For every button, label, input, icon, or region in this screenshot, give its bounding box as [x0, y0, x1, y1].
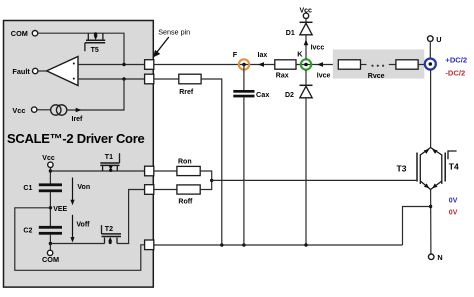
pin Ron (pinR1) [145, 166, 154, 176]
wire T1 rail to pin [50, 170, 144, 172]
svg-text:Voff: Voff [76, 221, 90, 228]
svg-text:Rref: Rref [179, 89, 194, 96]
capacitor Cax [243, 65, 245, 91]
svg-text:U: U [436, 35, 441, 44]
node VEE [49, 206, 52, 209]
junction [210, 179, 213, 182]
node N terminal [428, 254, 434, 260]
current source Iref [37, 109, 51, 111]
wire U down to node [429, 41, 431, 58]
wire D2 down to bottom rail [305, 98, 307, 245]
pin sense (pin1) [145, 60, 154, 70]
wire T2 drain up to Roff pin [117, 190, 145, 244]
node U terminal [428, 36, 434, 42]
wire op-amp top input to sense pin [78, 64, 145, 66]
wire gate rail to T3 [212, 179, 417, 181]
SCALE-2 driver core box [4, 21, 154, 288]
wire COM to T5 and down to op-amp input [38, 33, 124, 64]
resistor Rvce (left) [361, 64, 367, 66]
node COM (bottom terminal) [47, 250, 52, 255]
transistor T1 [100, 153, 119, 171]
svg-text:Ron: Ron [178, 159, 192, 166]
pin2 [145, 74, 154, 84]
transistor T5 [85, 33, 105, 51]
node F [239, 59, 249, 69]
junction [304, 243, 307, 246]
svg-text:Vcc: Vcc [42, 155, 55, 162]
node K [301, 59, 311, 69]
svg-text:Cax: Cax [256, 90, 269, 99]
svg-text:SCALE™-2 Driver Core: SCALE™-2 Driver Core [7, 131, 144, 146]
arrow Voff [72, 215, 74, 240]
arrow Iax [258, 62, 264, 67]
svg-text:Ivce: Ivce [317, 73, 331, 80]
Rvce shaded band [333, 49, 425, 78]
pin Roff (pinR2) [145, 185, 154, 195]
diode D2 [305, 70, 307, 86]
svg-text:COM: COM [42, 255, 59, 264]
svg-text:COM: COM [11, 29, 28, 38]
svg-text:C1: C1 [23, 185, 32, 192]
wire Iref arrow up to pin2 wire [67, 79, 124, 110]
svg-text:-DC/2: -DC/2 [445, 68, 465, 77]
wire D1 to K with Ivcc arrow [305, 35, 307, 60]
wire Vcc down to C1 [49, 168, 51, 184]
wire junction to bottom rail [403, 207, 431, 246]
resistor Rref [154, 78, 179, 80]
capacitor C2 [39, 226, 62, 229]
svg-text:Roff: Roff [178, 198, 193, 205]
arrow Von [72, 178, 74, 203]
junction [429, 205, 432, 208]
svg-text:T4: T4 [449, 162, 459, 172]
node U' (blue) [425, 59, 436, 70]
svg-text:D2: D2 [285, 92, 294, 99]
junction [49, 242, 52, 245]
svg-text:T2: T2 [105, 226, 113, 233]
pin VEE (pin3) [145, 240, 154, 250]
svg-text:C2: C2 [23, 228, 32, 235]
capacitor C1 [39, 183, 62, 186]
wire Rref down to bottom rail [201, 79, 222, 245]
junction [122, 63, 125, 66]
svg-text:Fault: Fault [12, 67, 30, 76]
svg-text:Von: Von [77, 184, 90, 191]
resistor Rax [275, 60, 296, 69]
junction [220, 243, 223, 246]
wire VEE loop to pin3 [15, 208, 145, 270]
svg-text:Ivcc: Ivcc [311, 44, 325, 51]
svg-text:K: K [297, 50, 303, 59]
svg-text:T3: T3 [397, 164, 407, 174]
junction [49, 169, 52, 172]
op-amp U1 [38, 70, 47, 72]
wire T3 bottom to N [430, 190, 432, 254]
svg-text:Iax: Iax [258, 52, 268, 59]
svg-text:F: F [233, 50, 238, 59]
svg-text:Rvce: Rvce [368, 73, 385, 80]
diode D1 [300, 21, 313, 23]
svg-text:Sense pin: Sense pin [158, 27, 190, 36]
wire pin1 to F to K [154, 64, 338, 66]
svg-text:+DC/2: +DC/2 [445, 55, 467, 64]
arrow to sense pin [157, 37, 169, 53]
transistor T2 [102, 225, 122, 243]
wire Vcc to D1 [305, 19, 307, 23]
svg-text:0V: 0V [449, 198, 458, 205]
dots [371, 65, 373, 67]
svg-text:Iref: Iref [72, 116, 84, 123]
svg-text:Vcc: Vcc [12, 106, 25, 115]
wire bottom rail [154, 244, 403, 246]
resistor Ron [154, 170, 177, 172]
wire op-amp bottom input to pin2 [78, 78, 145, 80]
wire C1 to VEE [49, 192, 51, 226]
svg-text:D1: D1 [286, 30, 295, 37]
junction [242, 243, 245, 246]
resistor Rvce (right) [389, 64, 396, 66]
wire COM rail to T2 [50, 243, 104, 245]
svg-text:Rax: Rax [276, 73, 289, 80]
resistor Roff [154, 189, 177, 191]
svg-text:T1: T1 [105, 154, 113, 161]
svg-text:N: N [437, 253, 442, 262]
transistor pair T3/T4 [417, 148, 457, 190]
wire C2 to COM [49, 235, 51, 251]
junction [122, 77, 125, 80]
wire node to T3/T4 [430, 70, 432, 148]
svg-text:T5: T5 [91, 47, 99, 54]
svg-text:VEE: VEE [53, 206, 67, 213]
svg-text:0V: 0V [449, 210, 458, 217]
arrow Ivce [317, 62, 323, 67]
